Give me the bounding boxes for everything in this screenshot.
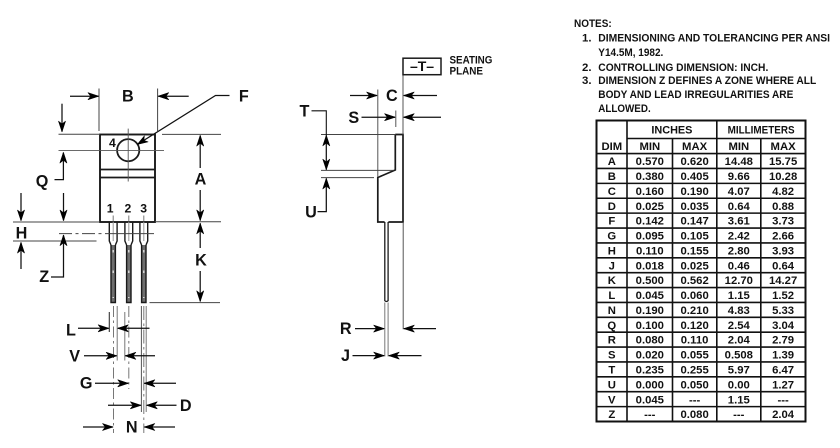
- svg-text:0.018: 0.018: [636, 260, 664, 272]
- svg-text:INCHES: INCHES: [651, 125, 693, 137]
- svg-text:C: C: [608, 186, 616, 198]
- svg-text:DIMENSIONING AND TOLERANCING P: DIMENSIONING AND TOLERANCING PER ANSI: [598, 33, 830, 45]
- svg-text:B: B: [608, 171, 616, 183]
- svg-text:–T–: –T–: [410, 58, 434, 74]
- svg-text:S: S: [608, 350, 616, 362]
- svg-text:0.46: 0.46: [728, 260, 750, 272]
- svg-text:14.27: 14.27: [769, 275, 797, 287]
- svg-text:K: K: [195, 252, 207, 270]
- svg-text:4.82: 4.82: [772, 186, 794, 198]
- lead 3 lower narrow section: [142, 245, 146, 303]
- svg-text:H: H: [16, 225, 28, 243]
- lead 2 upper wide section: [125, 222, 133, 245]
- svg-text:0.045: 0.045: [636, 394, 664, 406]
- svg-text:F: F: [239, 88, 249, 106]
- svg-text:0.00: 0.00: [728, 379, 750, 391]
- dimension H up arrow: [20, 243, 22, 269]
- svg-text:A: A: [195, 171, 207, 189]
- svg-text:H: H: [608, 245, 616, 257]
- svg-text:R: R: [340, 320, 352, 338]
- mounting hole: [117, 139, 139, 161]
- svg-text:Z: Z: [39, 268, 49, 286]
- svg-text:PLANE: PLANE: [450, 66, 484, 78]
- svg-text:G: G: [607, 231, 616, 243]
- svg-text:K: K: [608, 275, 617, 287]
- svg-text:5.97: 5.97: [728, 365, 750, 377]
- svg-text:0.025: 0.025: [636, 201, 664, 213]
- svg-text:2.54: 2.54: [728, 320, 751, 332]
- svg-text:0.88: 0.88: [772, 201, 794, 213]
- svg-text:0.000: 0.000: [636, 379, 664, 391]
- svg-text:T: T: [608, 365, 615, 377]
- lead 1 white center dash: [112, 250, 114, 298]
- dimension Q upper arrow: [61, 104, 63, 132]
- seating plane T box: [403, 58, 441, 74]
- dimension B right arrow: [158, 95, 188, 97]
- svg-text:T: T: [300, 102, 310, 120]
- svg-text:0.080: 0.080: [680, 409, 708, 421]
- lead 1 centerline upper: [112, 222, 114, 241]
- svg-text:DIMENSION Z DEFINES A ZONE WHE: DIMENSION Z DEFINES A ZONE WHERE ALL: [598, 75, 816, 87]
- svg-text:0.160: 0.160: [636, 186, 664, 198]
- svg-text:0.190: 0.190: [636, 305, 664, 317]
- svg-text:U: U: [305, 204, 317, 222]
- dimension A up arrow: [199, 136, 201, 168]
- extension line B right: [157, 89, 159, 132]
- right edge extension down (R): [402, 222, 404, 329]
- dimension R right arrow: [404, 328, 436, 330]
- svg-text:DIM: DIM: [601, 141, 622, 153]
- svg-text:0.025: 0.025: [680, 260, 708, 272]
- svg-text:V: V: [69, 348, 80, 366]
- dimension G right arrow: [144, 382, 176, 384]
- dimension F leader arrow: [137, 96, 229, 145]
- T lower extension line: [321, 169, 394, 171]
- svg-text:0.060: 0.060: [680, 290, 708, 302]
- svg-text:R: R: [608, 335, 616, 347]
- extension below leads: lead3 centerline dash-dot: [143, 306, 145, 433]
- svg-text:0.64: 0.64: [728, 201, 751, 213]
- extension below leads: L left: [108, 312, 110, 332]
- lead 1 upper wide section: [109, 222, 117, 245]
- Z zone dash-dot line: [59, 233, 106, 235]
- svg-text:Q: Q: [36, 173, 49, 191]
- top edge extension right: [162, 133, 221, 135]
- dimension C right arrow: [404, 95, 437, 97]
- lead 2 centerline upper: [128, 222, 130, 241]
- dimension V left arrow: [84, 355, 117, 357]
- svg-text:3.73: 3.73: [772, 216, 794, 228]
- svg-text:5.33: 5.33: [772, 305, 794, 317]
- svg-text:0.190: 0.190: [680, 186, 708, 198]
- body tab line lower: [100, 177, 155, 179]
- svg-text:0.080: 0.080: [636, 335, 664, 347]
- svg-text:0.095: 0.095: [636, 231, 664, 243]
- dimension Z up arrow leader: [51, 235, 64, 277]
- svg-text:2.80: 2.80: [728, 245, 750, 257]
- side lead: [385, 222, 388, 302]
- svg-text:NOTES:: NOTES:: [574, 18, 612, 30]
- top edge extension left: [59, 133, 101, 135]
- svg-text:0.405: 0.405: [680, 171, 708, 183]
- svg-text:0.235: 0.235: [636, 365, 664, 377]
- dimension J right arrow: [389, 355, 422, 357]
- svg-text:MILLIMETERS: MILLIMETERS: [728, 125, 795, 137]
- lead 3 upper wide section: [140, 222, 148, 245]
- extension below leads: lead1 centerline dash-dot: [113, 306, 115, 433]
- extension line B left: [98, 89, 100, 132]
- svg-text:MAX: MAX: [771, 141, 797, 153]
- svg-text:2.04: 2.04: [772, 409, 795, 421]
- svg-text:J: J: [609, 260, 615, 272]
- svg-text:0.110: 0.110: [681, 335, 709, 347]
- dimension T down arrow: [325, 152, 327, 170]
- lead 2 white center dash: [128, 250, 130, 298]
- svg-text:BODY AND LEAD IRREGULARITIES A: BODY AND LEAD IRREGULARITIES ARE: [598, 89, 793, 101]
- svg-text:0.500: 0.500: [636, 275, 664, 287]
- dimension K up arrow: [199, 223, 201, 248]
- hole vertical centerline: [127, 129, 129, 182]
- bottom edge extension left: [13, 221, 100, 223]
- dimension U leader up arrow: [318, 179, 327, 212]
- svg-text:Z: Z: [608, 409, 615, 421]
- svg-text:2: 2: [125, 201, 132, 215]
- svg-text:N: N: [126, 419, 138, 437]
- extension below leads: D right: [145, 306, 147, 412]
- lead 3 white center dash: [143, 250, 145, 298]
- svg-text:12.70: 12.70: [725, 275, 753, 287]
- svg-text:6.47: 6.47: [772, 365, 794, 377]
- lead 2 lower narrow section: [127, 245, 131, 303]
- dimension C left arrow: [350, 95, 377, 97]
- dimension D left arrow: [108, 404, 141, 406]
- svg-text:3.: 3.: [582, 75, 592, 87]
- extension below leads: lead2 centerline dash-dot: [128, 306, 130, 389]
- svg-text:---: ---: [689, 394, 701, 406]
- svg-text:2.42: 2.42: [728, 231, 750, 243]
- bottom edge extension right: [155, 221, 221, 223]
- dimension R left arrow: [355, 328, 384, 330]
- svg-text:G: G: [80, 375, 93, 393]
- svg-text:1: 1: [107, 201, 114, 215]
- svg-text:2.66: 2.66: [772, 231, 794, 243]
- svg-text:3.04: 3.04: [772, 320, 795, 332]
- svg-text:0.255: 0.255: [680, 365, 708, 377]
- dimension T up arrow: [325, 135, 327, 152]
- svg-text:0.570: 0.570: [636, 156, 664, 168]
- svg-text:CONTROLLING DIMENSION: INCH.: CONTROLLING DIMENSION: INCH.: [598, 62, 768, 74]
- body tab line upper: [100, 169, 155, 171]
- svg-text:MAX: MAX: [682, 141, 708, 153]
- S tab edge extension tick: [395, 111, 397, 128]
- svg-text:0.620: 0.620: [680, 156, 708, 168]
- svg-text:0.035: 0.035: [680, 201, 708, 213]
- hole horizontal centerline: [59, 150, 165, 152]
- svg-text:C: C: [386, 87, 398, 105]
- svg-text:1.15: 1.15: [728, 290, 750, 302]
- svg-text:D: D: [180, 397, 192, 415]
- svg-text:V: V: [608, 394, 616, 406]
- side body outline: [378, 135, 403, 223]
- table row lines: [597, 167, 806, 169]
- lead tips extension line (K bottom): [150, 302, 221, 304]
- dimension K down arrow: [199, 271, 201, 301]
- svg-text:0.210: 0.210: [680, 305, 708, 317]
- svg-text:0.508: 0.508: [725, 350, 753, 362]
- svg-text:14.48: 14.48: [725, 156, 753, 168]
- dimension L left arrow: [78, 327, 109, 329]
- dimension S left arrow: [362, 116, 396, 118]
- svg-text:ALLOWED.: ALLOWED.: [598, 103, 650, 115]
- svg-text:A: A: [608, 156, 616, 168]
- H lower extension line: [13, 240, 97, 242]
- dimension G left arrow: [95, 382, 128, 384]
- svg-text:3: 3: [140, 201, 147, 215]
- svg-text:2.: 2.: [582, 62, 592, 74]
- svg-text:15.75: 15.75: [769, 156, 797, 168]
- svg-text:Y14.5M, 1982.: Y14.5M, 1982.: [598, 47, 663, 59]
- seating plane datum line: [402, 75, 404, 135]
- table column lines: [626, 121, 628, 422]
- svg-text:1.39: 1.39: [772, 350, 794, 362]
- svg-text:0.045: 0.045: [636, 290, 664, 302]
- svg-text:0.100: 0.100: [636, 320, 664, 332]
- svg-text:0.105: 0.105: [680, 231, 708, 243]
- dimension V right arrow: [125, 355, 155, 357]
- U extension line: [321, 177, 374, 179]
- svg-text:10.28: 10.28: [769, 171, 797, 183]
- svg-text:0.055: 0.055: [680, 350, 708, 362]
- svg-text:0.64: 0.64: [772, 260, 795, 272]
- svg-text:L: L: [66, 322, 76, 340]
- svg-text:0.562: 0.562: [680, 275, 708, 287]
- dimension J left arrow: [353, 355, 385, 357]
- dimension B left arrow: [70, 95, 98, 97]
- svg-text:0.142: 0.142: [636, 216, 664, 228]
- svg-text:U: U: [608, 379, 616, 391]
- svg-text:S: S: [348, 109, 359, 127]
- lead 1 lower narrow section: [111, 245, 115, 303]
- svg-text:B: B: [122, 88, 134, 106]
- lead centerline stubs inside body: [113, 216, 144, 222]
- svg-text:L: L: [608, 290, 615, 302]
- svg-text:1.27: 1.27: [772, 379, 794, 391]
- svg-text:3.61: 3.61: [728, 216, 750, 228]
- svg-text:4: 4: [109, 136, 116, 150]
- dimension N right arrow: [144, 426, 175, 428]
- svg-text:0.380: 0.380: [636, 171, 664, 183]
- lead 3 centerline upper: [143, 222, 145, 241]
- dimension T leader bracket: [312, 111, 327, 136]
- svg-text:---: ---: [644, 409, 656, 421]
- svg-text:1.52: 1.52: [772, 290, 794, 302]
- dimension D right arrow: [147, 404, 177, 406]
- side lead extension below tip: [384, 303, 386, 357]
- svg-text:F: F: [608, 216, 615, 228]
- svg-text:0.020: 0.020: [636, 350, 664, 362]
- dimension S right arrow: [404, 116, 441, 118]
- svg-text:0.120: 0.120: [680, 320, 708, 332]
- svg-text:---: ---: [777, 394, 789, 406]
- dimension N left arrow: [83, 426, 113, 428]
- dimension A down arrow: [199, 190, 201, 220]
- svg-text:MIN: MIN: [728, 141, 749, 153]
- extension below leads: D left: [140, 306, 142, 412]
- svg-text:0.155: 0.155: [680, 245, 708, 257]
- dimension Q lower arrow leader: [55, 153, 64, 180]
- svg-text:4.83: 4.83: [728, 305, 750, 317]
- svg-text:D: D: [608, 201, 616, 213]
- extension below leads: lead2 left shoulder: [124, 312, 126, 361]
- top edge extension left (T upper): [321, 134, 395, 136]
- svg-text:MIN: MIN: [639, 141, 660, 153]
- dimension L right arrow: [118, 327, 150, 329]
- svg-text:9.66: 9.66: [728, 171, 750, 183]
- svg-text:Q: Q: [607, 320, 616, 332]
- svg-text:1.15: 1.15: [728, 394, 750, 406]
- svg-text:0.110: 0.110: [636, 245, 664, 257]
- svg-text:0.147: 0.147: [680, 216, 708, 228]
- svg-text:2.04: 2.04: [728, 335, 751, 347]
- svg-text:2.79: 2.79: [772, 335, 794, 347]
- extension below leads: lead1 right shoulder: [116, 306, 118, 361]
- svg-text:3.93: 3.93: [772, 245, 794, 257]
- svg-text:4.07: 4.07: [728, 186, 750, 198]
- C left extension line: [377, 90, 379, 178]
- table outer border: [597, 121, 806, 422]
- table header separators: [627, 138, 806, 140]
- svg-text:J: J: [341, 347, 350, 365]
- dimension Z down arrow: [63, 193, 65, 221]
- svg-text:1.: 1.: [582, 33, 592, 45]
- svg-text:N: N: [608, 305, 616, 317]
- package body outline: [100, 135, 155, 223]
- dimension H down arrow: [20, 193, 22, 221]
- svg-text:---: ---: [733, 409, 745, 421]
- svg-text:0.050: 0.050: [680, 379, 708, 391]
